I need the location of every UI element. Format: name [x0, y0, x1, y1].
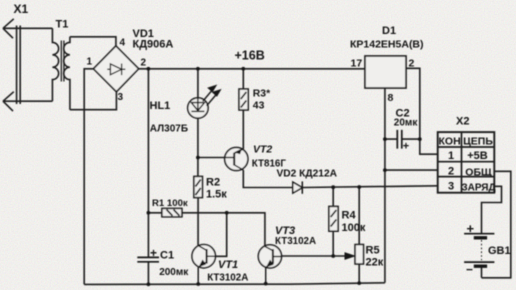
svg-text:−: −	[466, 263, 473, 277]
svg-text:+: +	[403, 141, 409, 153]
svg-text:HL1: HL1	[150, 100, 171, 112]
svg-text:4: 4	[120, 38, 126, 49]
svg-text:КД906А: КД906А	[133, 39, 174, 51]
svg-text:8: 8	[388, 92, 394, 104]
svg-text:КТ3102А: КТ3102А	[275, 236, 316, 247]
svg-text:100к: 100к	[342, 222, 366, 234]
svg-text:ОБЩ: ОБЩ	[465, 167, 492, 179]
svg-text:R3*: R3*	[253, 88, 271, 99]
svg-text:R2: R2	[206, 177, 220, 189]
svg-text:1: 1	[87, 57, 93, 68]
svg-text:22к: 22к	[366, 257, 384, 269]
svg-text:R4: R4	[342, 210, 357, 222]
svg-text:17: 17	[351, 58, 363, 70]
svg-text:R1 100к: R1 100к	[152, 198, 188, 209]
svg-text:T1: T1	[56, 19, 69, 31]
svg-text:C1: C1	[160, 250, 174, 262]
svg-text:ЦЕПЬ: ЦЕПЬ	[463, 135, 493, 147]
svg-text:+16В: +16В	[235, 49, 265, 63]
svg-text:20мк: 20мк	[394, 118, 419, 129]
svg-text:D1: D1	[382, 25, 396, 37]
svg-text:200мк: 200мк	[159, 267, 189, 278]
svg-text:VT2: VT2	[253, 144, 272, 156]
svg-text:КР142ЕН5А(В): КР142ЕН5А(В)	[350, 39, 424, 51]
svg-text:3: 3	[118, 92, 124, 103]
svg-text:2: 2	[409, 58, 415, 70]
svg-text:X2: X2	[456, 116, 469, 128]
svg-text:2: 2	[141, 58, 147, 69]
svg-text:ЗАРЯД: ЗАРЯД	[461, 183, 495, 194]
svg-text:2: 2	[448, 166, 454, 178]
svg-text:+: +	[467, 221, 475, 236]
svg-text:R5: R5	[366, 245, 380, 257]
svg-text:X1: X1	[14, 2, 29, 16]
svg-text:АЛ307Б: АЛ307Б	[150, 123, 188, 134]
svg-text:VD2 КД212А: VD2 КД212А	[277, 168, 338, 179]
svg-text:43: 43	[253, 100, 265, 111]
svg-text:3: 3	[448, 181, 454, 193]
svg-text:+: +	[150, 246, 157, 260]
svg-text:1.5к: 1.5к	[206, 189, 227, 201]
svg-text:GB1: GB1	[488, 245, 511, 257]
svg-text:КОН: КОН	[439, 135, 461, 147]
svg-text:КТ3102А: КТ3102А	[207, 272, 248, 283]
svg-text:VT1: VT1	[218, 259, 238, 271]
svg-text:+5В: +5В	[467, 150, 488, 162]
svg-text:1: 1	[448, 150, 454, 162]
